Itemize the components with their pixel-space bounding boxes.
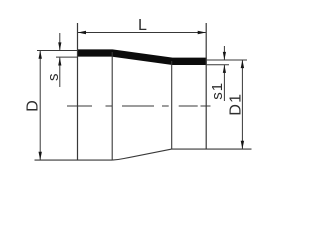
- weld seam line small end: [171, 61, 173, 149]
- svg-text:L: L: [138, 17, 147, 34]
- body top wall thick band: [77, 53, 207, 61]
- dimension s1 lower line: [223, 65, 225, 101]
- dimension s upper line: [59, 33, 61, 50]
- body left end edge with L extension line: [77, 23, 79, 160]
- s1 top extension line: [207, 59, 247, 61]
- bottom edge small end with D1 extension line: [172, 148, 252, 150]
- dimension D bottom arrowhead: [39, 152, 42, 160]
- s1 bottom extension line: [207, 64, 229, 66]
- dimension D1 bottom arrowhead: [241, 141, 244, 149]
- body right end edge with L extension line: [205, 23, 207, 149]
- cone bottom edge: [112, 149, 171, 160]
- dimension s1 upper line: [223, 46, 225, 60]
- svg-text:D: D: [24, 100, 41, 112]
- dimension s1 upper arrowhead: [223, 52, 226, 60]
- dimension s lower line: [59, 58, 61, 87]
- svg-text:s1: s1: [209, 82, 226, 100]
- dimension D1 top arrowhead: [241, 60, 244, 68]
- dimension s lower arrowhead: [58, 58, 61, 66]
- svg-text:D1: D1: [228, 93, 245, 116]
- dimension D1 line: [241, 60, 243, 149]
- centerline dash-dot: [67, 105, 211, 107]
- s bottom extension line: [56, 56, 78, 58]
- dimension L line: [78, 32, 206, 34]
- dimension s1 lower arrowhead: [223, 65, 226, 73]
- svg-text:s: s: [45, 73, 62, 81]
- shared top extension line for D and s: [37, 50, 78, 52]
- weld seam line large end: [111, 52, 113, 160]
- dimension D top arrowhead: [39, 51, 42, 59]
- dimension s upper arrowhead: [58, 42, 61, 50]
- dimension L left arrowhead: [78, 31, 86, 34]
- dimension D line: [39, 51, 41, 160]
- bottom edge large end with D extension line: [35, 159, 113, 161]
- dimension L right arrowhead: [198, 31, 206, 34]
